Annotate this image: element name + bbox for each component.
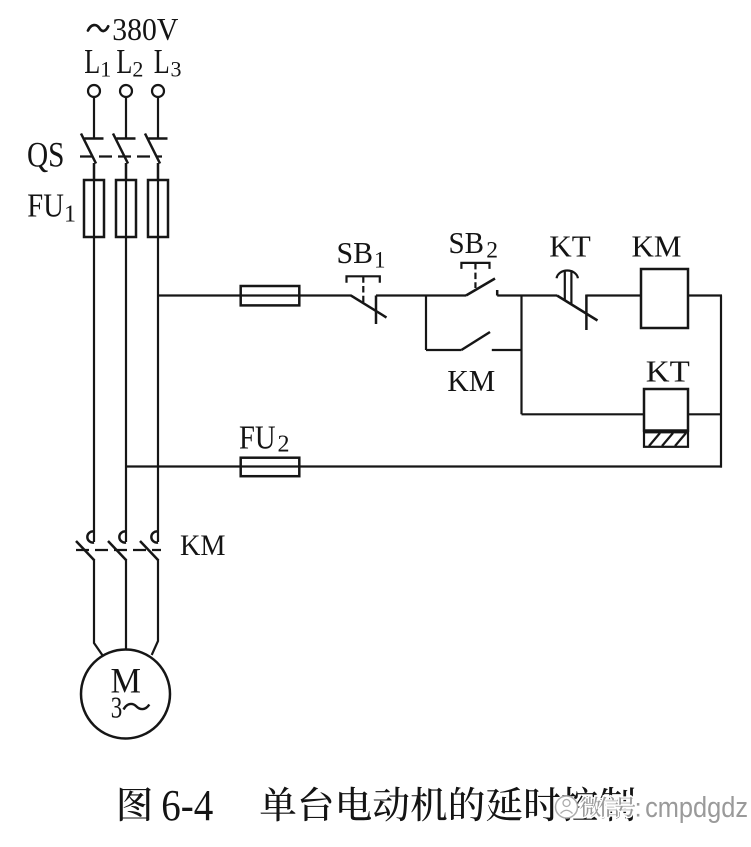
coil KM	[641, 269, 688, 328]
motor M 3~	[81, 650, 170, 739]
fuse FU1 pole 1	[84, 180, 104, 237]
pushbutton SB2 (NO)	[466, 279, 497, 296]
wire phase L2 vertical	[125, 237, 127, 542]
contactor KM main contact pole 1	[76, 531, 95, 560]
svg-text:6-4: 6-4	[161, 781, 213, 830]
motor tilde	[124, 704, 150, 710]
svg-text:3: 3	[171, 57, 182, 82]
svg-text:cmpdgdz: cmpdgdz	[645, 792, 748, 824]
svg-text:1: 1	[374, 247, 386, 272]
wire L2 drop	[125, 97, 127, 139]
svg-text:KT: KT	[549, 229, 591, 264]
wire node A to KT coil	[522, 413, 645, 415]
wire motor lead 1	[94, 560, 102, 655]
wire L1 drop	[93, 97, 95, 139]
coil KT (time relay)	[644, 389, 688, 431]
svg-text:KM: KM	[632, 229, 682, 264]
svg-text:3: 3	[111, 690, 123, 725]
wire bottom control line	[126, 465, 722, 467]
terminal L2	[120, 85, 132, 97]
svg-text:KM: KM	[180, 529, 226, 562]
pushbutton SB1 (NC)	[351, 296, 387, 325]
wire KM aux branch bottom right	[492, 349, 522, 351]
svg-text:FU: FU	[239, 420, 276, 457]
watermark icon	[556, 796, 578, 818]
switch QS pole 3	[145, 134, 168, 182]
supply label ~380V	[88, 25, 108, 31]
pushbutton SB2 actuator	[461, 263, 489, 288]
contactor KM linkage (dashed)	[76, 549, 161, 551]
wire control line from L3 to SB1	[158, 294, 352, 296]
svg-text:1: 1	[64, 202, 76, 228]
pushbutton SB1 actuator	[347, 276, 380, 303]
fuse FU1 pole 2	[116, 180, 136, 237]
svg-text:1: 1	[100, 57, 111, 82]
svg-text:L: L	[84, 42, 100, 81]
contact KT (NC, delayed opening)	[557, 295, 598, 331]
coil KT delay element (hatched)	[644, 432, 688, 447]
wire L3 drop	[157, 97, 159, 139]
wire KM aux branch left drop	[425, 296, 427, 351]
svg-text:2: 2	[278, 432, 290, 458]
contactor KM main contact pole 2	[108, 531, 127, 560]
wire motor lead 3	[152, 560, 158, 655]
terminal L1	[88, 85, 100, 97]
fuse FU (control, upper)	[241, 286, 300, 305]
svg-text::: :	[635, 793, 642, 823]
switch QS pole 1	[81, 134, 104, 182]
contactor KM main contact pole 3	[140, 531, 159, 560]
svg-text:L: L	[116, 42, 132, 81]
wire SB1 to SB2	[376, 294, 466, 296]
wire KM coil to right rail	[688, 294, 722, 296]
svg-text:KM: KM	[447, 363, 495, 398]
wire KM aux branch bottom left	[426, 349, 461, 351]
svg-text:QS: QS	[27, 135, 65, 175]
contact KT delay symbol	[557, 270, 578, 304]
wire phase L1 vertical	[93, 237, 95, 542]
wire through fuse FU1 pole 3	[157, 180, 159, 237]
svg-text:FU: FU	[27, 187, 64, 224]
svg-text:2: 2	[132, 57, 143, 82]
svg-text:SB: SB	[337, 235, 374, 270]
svg-text:L: L	[154, 42, 170, 81]
contact KM auxiliary (NO)	[461, 332, 490, 350]
wire through fuse FU1 pole 2	[125, 180, 127, 237]
svg-text:SB: SB	[449, 225, 485, 260]
switch QS pole 2	[113, 134, 136, 182]
switch QS linkage (dashed)	[80, 155, 162, 157]
wire node A vertical	[520, 296, 522, 415]
wire KT coil to right rail	[688, 413, 722, 415]
wire phase L3 vertical	[157, 237, 159, 542]
wire through fuse FU1 pole 1	[93, 180, 95, 237]
watermark text 微信号: cmpdgdz	[580, 792, 748, 824]
fuse FU2	[241, 458, 300, 477]
svg-text:KT: KT	[646, 354, 690, 389]
terminal L3	[152, 85, 164, 97]
caption: 图 6-4 单台电动机的延时控制	[120, 781, 635, 830]
svg-text:2: 2	[486, 237, 498, 263]
wire right rail vertical	[720, 296, 722, 468]
wire SB2 to node A	[497, 294, 557, 296]
wire motor lead 2	[125, 560, 127, 650]
fuse FU1 pole 3	[148, 180, 168, 237]
wire KT contact to KM coil	[586, 294, 641, 296]
